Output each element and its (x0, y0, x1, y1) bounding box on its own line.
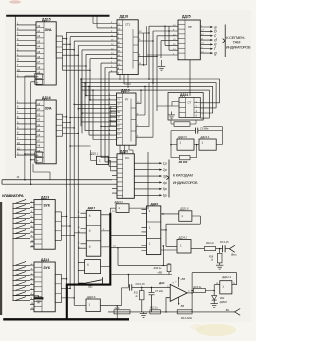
input rungs DD16 (17, 103, 36, 155)
wire oscillator chain (171, 127, 222, 145)
IC DD13 pin column (34, 200, 42, 250)
pin numbers DD13 (31, 201, 34, 247)
svg-text:СТ: СТ (188, 101, 192, 105)
wire DD21.6 loop (161, 216, 201, 246)
svg-text:4р: 4р (163, 181, 167, 185)
svg-text:R14 220к: R14 220к (181, 316, 193, 320)
wire bottom thick border (3, 318, 129, 320)
svg-text:+5В: +5В (180, 277, 185, 281)
keyboard switches group 2 (13, 262, 30, 301)
wire DD23.6 output (100, 288, 129, 319)
wire op-amp output (187, 292, 192, 294)
gate DD23.6 (86, 299, 100, 312)
pin cell labels DD19 (117, 99, 120, 141)
svg-text:ИНДИКАТОРОВ: ИНДИКАТОРОВ (173, 181, 198, 185)
wire DD25 to DD24 enclosure (189, 60, 191, 96)
svg-text:Вх.: Вх. (226, 308, 230, 312)
svg-text:2р: 2р (162, 168, 167, 172)
IC DD15 output cells (56, 42, 62, 53)
wire DD22 out down (162, 246, 164, 266)
pin numbers DD16 inputs (17, 101, 20, 156)
IC DD25 pin column (178, 20, 185, 60)
svg-text:ДА1: ДА1 (158, 281, 165, 285)
svg-text:&: & (87, 262, 89, 266)
svg-text:D4: D4 (117, 134, 119, 136)
wire DD19-DD20 connectors (120, 145, 133, 154)
svg-text:-5В: -5В (180, 304, 184, 308)
IC DD22 section dividers (147, 222, 161, 238)
svg-text:&: & (89, 245, 91, 249)
pin numbers DD25 outputs (201, 25, 204, 53)
svg-text:VD2: VD2 (220, 297, 225, 300)
junction dots DD17 outputs (110, 230, 112, 232)
pin stubs DD14 (30, 265, 34, 309)
wire vertical through cathode rows (147, 152, 149, 209)
svg-text:С2: С2 (117, 103, 119, 105)
ground DD24 input (168, 112, 175, 119)
IC DD19 output column (131, 99, 136, 142)
svg-text:Вых.: Вых. (231, 253, 237, 257)
svg-text:ДД15: ДД15 (42, 18, 51, 22)
IC DD14 output section (55, 274, 61, 302)
wire bundle vertical risers between DD15/DD16 and DD18/DD19 (62, 32, 109, 305)
arrowheads cathode outputs (159, 162, 162, 164)
capacitor C7 vertical (149, 287, 155, 312)
svg-text:С7 22н: С7 22н (155, 290, 164, 293)
IC DD14 pin column (34, 262, 42, 312)
svg-text:ЗУК: ЗУК (43, 266, 50, 270)
IC DD15 body (36, 22, 56, 85)
IC DD14 output cells (55, 284, 61, 294)
paper tint patches (196, 324, 236, 336)
IC DD20 pin column (117, 154, 123, 199)
resistor R15 box (167, 264, 171, 272)
power +5V op-amp (178, 278, 180, 287)
svg-text:ДД20: ДД20 (120, 149, 128, 153)
IC DD24 enclosure (168, 93, 203, 121)
wire DD12.4 output (232, 284, 237, 286)
IC DD16 pin column divider (36, 100, 44, 164)
svg-text:КД503: КД503 (220, 301, 228, 304)
gate DD23.5 (177, 139, 194, 150)
gate DD23.2 (116, 204, 129, 213)
IC DD15 output section (56, 36, 62, 58)
wire signal node to op-amp (132, 286, 170, 288)
keyboard common bus and ground (13, 203, 39, 295)
gate DD17.4 (85, 260, 101, 274)
segment letters a-g (214, 24, 217, 55)
svg-text:ДД12.4: ДД12.4 (221, 275, 231, 279)
svg-text:D1: D1 (118, 42, 120, 44)
ground keyboard (bold) (38, 296, 40, 298)
pin numbers DD18 right (139, 31, 142, 65)
capacitor C5 (195, 128, 197, 134)
wire DD15 outputs (62, 39, 78, 56)
IC DD16 output cells (56, 120, 62, 131)
IC DD19 pin column (117, 93, 123, 145)
wire bold bus to DD22 feeds (110, 236, 146, 248)
wire bus continuation to switches 2 (12, 296, 14, 301)
svg-text:ДД22: ДД22 (151, 202, 159, 206)
svg-text:3р: 3р (163, 174, 167, 178)
ground under R16 (216, 263, 223, 269)
wire DD20 outputs with arrows (134, 163, 159, 195)
switch SB1 (78, 277, 102, 284)
wire DD24 inputs (157, 102, 179, 107)
svg-text:С2: С2 (118, 29, 120, 31)
gate symbols DD17 (89, 214, 91, 249)
pin numbers DD15 inputs (17, 22, 20, 77)
junction dots on buses (80, 78, 82, 80)
wire +5V rail (112, 248, 172, 288)
IC DD18 pin column (117, 20, 123, 75)
svg-text:&: & (89, 229, 91, 233)
ground under VD2 (211, 304, 218, 308)
IC DD19 body (117, 93, 137, 145)
svg-text:D2: D2 (118, 46, 120, 48)
svg-text:D2: D2 (117, 125, 119, 127)
IC DD25 body (178, 20, 200, 60)
IC DD22 body (147, 206, 161, 255)
pin numbers DD24 outputs 1 2 4 8 (196, 102, 198, 117)
ground near DD18 (158, 60, 165, 70)
svg-text:РГ: РГ (125, 98, 129, 102)
resistor R17 box (114, 310, 130, 314)
wire DD18 outputs (138, 26, 157, 65)
svg-text:ЗУА: ЗУА (45, 28, 52, 32)
pin stubs DD13 (30, 203, 34, 247)
bus riser taps down to DD19 inputs (81, 79, 93, 140)
wire DD16 control pins (25, 154, 50, 184)
wire DD23.6 input (74, 304, 86, 306)
svg-text:С1: С1 (118, 24, 120, 26)
arrowheads segment outputs (210, 26, 213, 28)
wire DD22 outputs (161, 214, 179, 250)
pencil speck top (9, 0, 21, 3)
junction dots DD15 outputs (66, 38, 68, 40)
IC DD20 body (117, 154, 134, 199)
svg-text:DC: DC (125, 156, 129, 160)
wire R13 leads (192, 285, 220, 291)
IC DD16 output section (56, 114, 62, 136)
IC DD13 body (34, 200, 55, 250)
wire DD17 outputs to bold bus (101, 215, 111, 247)
wire taps from top rail (93, 16, 97, 28)
svg-text:5р: 5р (163, 187, 167, 191)
output terminal arrow Vykh (229, 245, 235, 252)
gate DD21.6 (179, 211, 192, 222)
pin stubs DD18 left (110, 24, 117, 72)
svg-text:КЛАВИАТУРА: КЛАВИАТУРА (2, 194, 24, 198)
wire DD25 outputs with arrows to segments (200, 27, 210, 53)
pin stubs DD25 left (172, 26, 178, 55)
scan inner tint (5, 10, 251, 322)
IC DD16 body (36, 100, 56, 164)
svg-text:+5В: +5В (157, 271, 162, 275)
svg-text:ТАМ: ТАМ (233, 40, 241, 45)
svg-text:ДД23.6: ДД23.6 (86, 296, 96, 299)
wire gate output to bold bus (101, 266, 111, 268)
wire address bus loops (4) from DD24 outputs (81, 79, 220, 118)
svg-text:ДД23.5: ДД23.5 (177, 135, 187, 139)
svg-text:ДД25: ДД25 (182, 15, 191, 19)
IC DD15 pin column divider (36, 22, 44, 85)
IC DD15 bottom pin cell PV (35, 74, 43, 79)
IC DD17 section dividers (86, 226, 101, 241)
svg-text:ДД21.6: ДД21.6 (179, 207, 189, 210)
power -5V op-amp (178, 297, 180, 304)
svg-text:С1: С1 (117, 99, 119, 101)
wire horizontal feeds into DD18 pins (67, 24, 111, 72)
pin numbers DD19 left (109, 94, 112, 136)
wire R8 leads (171, 120, 196, 124)
IC DD14 body (34, 262, 55, 312)
wire vertical bus left (14, 16, 16, 158)
bold module border (thick polyline) (67, 213, 111, 319)
capacitor C6 (130, 284, 132, 290)
wire DD13 outputs (61, 216, 74, 235)
capacitor C8 (223, 245, 226, 252)
IC DD18 body (117, 20, 138, 75)
input terminal arrow Vkh (235, 309, 241, 316)
svg-text:ПР: ПР (188, 25, 192, 29)
wire R10 to C8 (216, 248, 230, 250)
diode VD2 (213, 291, 215, 296)
svg-text:ДД18: ДД18 (120, 15, 129, 19)
junction dots DD16 outputs (66, 116, 68, 118)
wire top supply rail (6, 15, 109, 17)
svg-text:R10 1к: R10 1к (154, 267, 163, 270)
wire R9 feedback (171, 145, 197, 158)
pin cell labels DD18 (118, 24, 121, 74)
pin numbers DD18 left (111, 22, 114, 72)
IC DD17 body (86, 210, 101, 256)
IC DD15 bottom pin cell CE (35, 79, 43, 84)
svg-text:С8 0,15: С8 0,15 (220, 241, 229, 244)
wire R11 leads (141, 287, 143, 312)
keyboard switches group 1 (13, 200, 30, 239)
resistor R12 box (150, 310, 161, 314)
IC DD18 output column (133, 29, 138, 69)
wire DD17 input taps (70, 218, 80, 249)
pin stubs DD19 left (108, 96, 117, 140)
svg-text:К КАТОДАМ: К КАТОДАМ (173, 172, 193, 177)
pin stubs DD17 (81, 213, 87, 248)
pin names A0-A9 DD16 (37, 103, 41, 153)
boxed pin labels DD19 (110, 107, 116, 111)
svg-text:1р: 1р (163, 162, 167, 166)
IC DD16 bottom pin cell CE (35, 158, 43, 163)
svg-text:220к: 220к (114, 307, 121, 310)
pin numbers DD14 (31, 264, 34, 310)
svg-text:ЗУА: ЗУА (45, 106, 52, 110)
resistor R8 box (174, 122, 190, 127)
gate DD23.4 (199, 139, 216, 150)
svg-text:ДД14: ДД14 (41, 258, 49, 262)
wire bundle between DD18 and DD25 (147, 26, 172, 111)
pin numbers DD17 (78, 212, 80, 249)
svg-text:SB1: SB1 (88, 286, 93, 289)
gate DD21.1 (97, 156, 109, 164)
pin stubs DD20 left (112, 158, 117, 194)
wire R16 branch (219, 249, 221, 254)
resistor R16 box (218, 253, 223, 263)
wire bottom analog bus (108, 311, 235, 313)
svg-text:R11: R11 (134, 293, 139, 295)
svg-text:ДД19: ДД19 (121, 89, 130, 93)
svg-text:ДД16: ДД16 (42, 96, 51, 100)
resistor R11 vertical (140, 291, 145, 300)
wire DD20 input feeds (101, 158, 112, 167)
wire DD23.2 connections (110, 208, 146, 213)
gate DD24.2 (177, 240, 191, 254)
svg-text:D1: D1 (117, 121, 119, 123)
svg-text:ДД23.4: ДД23.4 (200, 135, 210, 139)
page left edge shadow (0, 202, 2, 315)
svg-text:ДД17: ДД17 (88, 206, 96, 210)
pin numbers DD19 right (137, 102, 140, 138)
svg-text:D3: D3 (118, 51, 120, 53)
svg-text:ЗУК: ЗУК (43, 204, 50, 208)
svg-text:ДД24: ДД24 (180, 93, 188, 97)
resistor R14 box (177, 310, 192, 314)
IC DD24 body (179, 98, 200, 118)
svg-text:С6 0,15: С6 0,15 (136, 282, 146, 286)
svg-text:R16: R16 (209, 256, 214, 258)
op-amp DA1 (170, 284, 187, 301)
resistor ladder / input rungs DD15 (17, 25, 36, 77)
ground on bottom bus (140, 312, 147, 318)
cathode labels 1p-6p (162, 162, 167, 198)
svg-text:D3: D3 (117, 130, 119, 132)
IC DD24 divider (179, 98, 200, 118)
resistor R9 box (179, 155, 190, 159)
svg-text:&: & (89, 214, 91, 218)
IC DD13 output cells (55, 221, 61, 231)
resistor R13 box (193, 288, 205, 292)
svg-text:ИНДИКАТОРОВ: ИНДИКАТОРОВ (226, 46, 251, 50)
svg-text:6р: 6р (163, 194, 167, 198)
svg-text:С5 68н: С5 68н (200, 127, 209, 131)
svg-text:R10 1к: R10 1к (206, 242, 215, 245)
IC DD13 output section (55, 212, 61, 240)
wire op-amp pin3 to bus (166, 297, 170, 312)
pin names A0-A9 DD15 (37, 25, 41, 75)
junction dots mid buses (66, 278, 68, 280)
wire DD21.1 in/out (91, 150, 113, 171)
wire DD16 outputs (62, 117, 78, 133)
gate symbols DD22 (149, 209, 151, 246)
svg-text:СТ2: СТ2 (125, 23, 131, 27)
wire DD19 outputs up to buses (136, 79, 153, 137)
wire DD14 outputs (61, 279, 74, 298)
junction dots wire fan (85, 95, 87, 97)
IC DD16 bottom pin cell PV (35, 152, 43, 157)
pin stubs DD22 (142, 209, 147, 250)
long wires into DD20 from left (2, 180, 112, 184)
pin numbers DD25 left (173, 25, 176, 56)
svg-text:D4: D4 (118, 55, 120, 57)
gate DD12.4 (220, 281, 232, 294)
junction dots bundle (148, 32, 150, 34)
pin stubs gate SB1 (78, 262, 84, 270)
svg-text:R12 1к: R12 1к (150, 307, 158, 310)
wire horizontal feeds into DD19 pins (70, 96, 108, 140)
wire DD15 control pins (25, 76, 35, 160)
wire feedback column (192, 273, 237, 312)
svg-text:R9 390: R9 390 (179, 160, 188, 164)
wire DD24.2 output (191, 248, 204, 250)
brace segments group (vertical bar with chevron) (223, 25, 226, 58)
brace cathodes group (vertical bar with chevron) (166, 160, 169, 198)
wire DD18 bottom stubs (120, 75, 131, 89)
resistor R10 box (204, 247, 215, 251)
svg-text:ДД13: ДД13 (41, 195, 49, 199)
